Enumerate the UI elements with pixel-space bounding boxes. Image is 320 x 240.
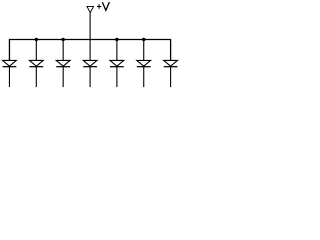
junction dot D3 xyxy=(61,38,64,41)
junction dot D6 xyxy=(142,38,145,41)
wire top bus xyxy=(9,40,170,61)
wire drop D4 xyxy=(89,40,91,61)
diode D1 xyxy=(3,60,17,87)
junction dot D2 xyxy=(35,38,38,41)
power symbol +V xyxy=(87,6,94,12)
diode D2 xyxy=(29,60,43,87)
label +V xyxy=(97,2,110,10)
wire drop D3 xyxy=(62,40,64,61)
wire drop D5 xyxy=(116,40,118,61)
diode D6 xyxy=(137,60,151,87)
wire supply drop xyxy=(89,13,91,40)
diode D3 xyxy=(56,60,70,87)
diode D4 xyxy=(83,60,97,87)
diode D7 xyxy=(164,60,178,87)
junction dot D5 xyxy=(115,38,118,41)
wire drop D6 xyxy=(143,40,145,61)
diode D5 xyxy=(110,60,124,87)
wire drop D2 xyxy=(35,40,37,61)
